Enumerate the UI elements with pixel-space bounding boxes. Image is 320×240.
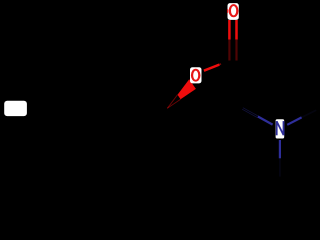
O1 carbonyl oxygen label — [228, 3, 239, 20]
bond C1=O1 carbonyl double bond (red halves near O, dim carbon halves) — [229, 20, 236, 61]
bond N1-C4 methyl up-right (blue half near N) — [287, 110, 316, 125]
bond C3-N1 (blue half near N, dim doubled carbon half) — [242, 108, 273, 125]
O2 ester oxygen label — [190, 67, 202, 83]
bond C1-O2 ester single bond (red half near O2) — [204, 64, 221, 71]
atom label box (blank, far left) — [4, 101, 27, 116]
red nub left of O1 patch — [227, 9, 229, 13]
wedge bond O2-C2 (solid wedge, red half near O2, dim outlined tip half) — [167, 79, 196, 108]
bond N1-C5 methyl down (blue half near N) — [279, 140, 281, 177]
N1 nitrogen label — [276, 119, 285, 138]
